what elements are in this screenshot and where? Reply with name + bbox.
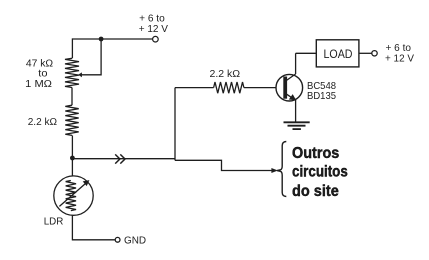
- svg-text:GND: GND: [124, 235, 146, 247]
- svg-text:1 MΩ: 1 MΩ: [25, 78, 52, 90]
- svg-text:+ 12 V: + 12 V: [385, 53, 414, 65]
- svg-text:do site: do site: [292, 183, 339, 200]
- svg-text:2.2 kΩ: 2.2 kΩ: [28, 116, 58, 128]
- svg-text:BD135: BD135: [307, 90, 336, 102]
- svg-text:LOAD: LOAD: [324, 49, 353, 61]
- svg-text:circuitos: circuitos: [292, 164, 348, 181]
- svg-text:LDR: LDR: [44, 216, 64, 228]
- svg-text:2.2 kΩ: 2.2 kΩ: [210, 68, 241, 80]
- svg-text:Outros: Outros: [292, 145, 339, 162]
- svg-text:+ 12 V: + 12 V: [139, 23, 168, 35]
